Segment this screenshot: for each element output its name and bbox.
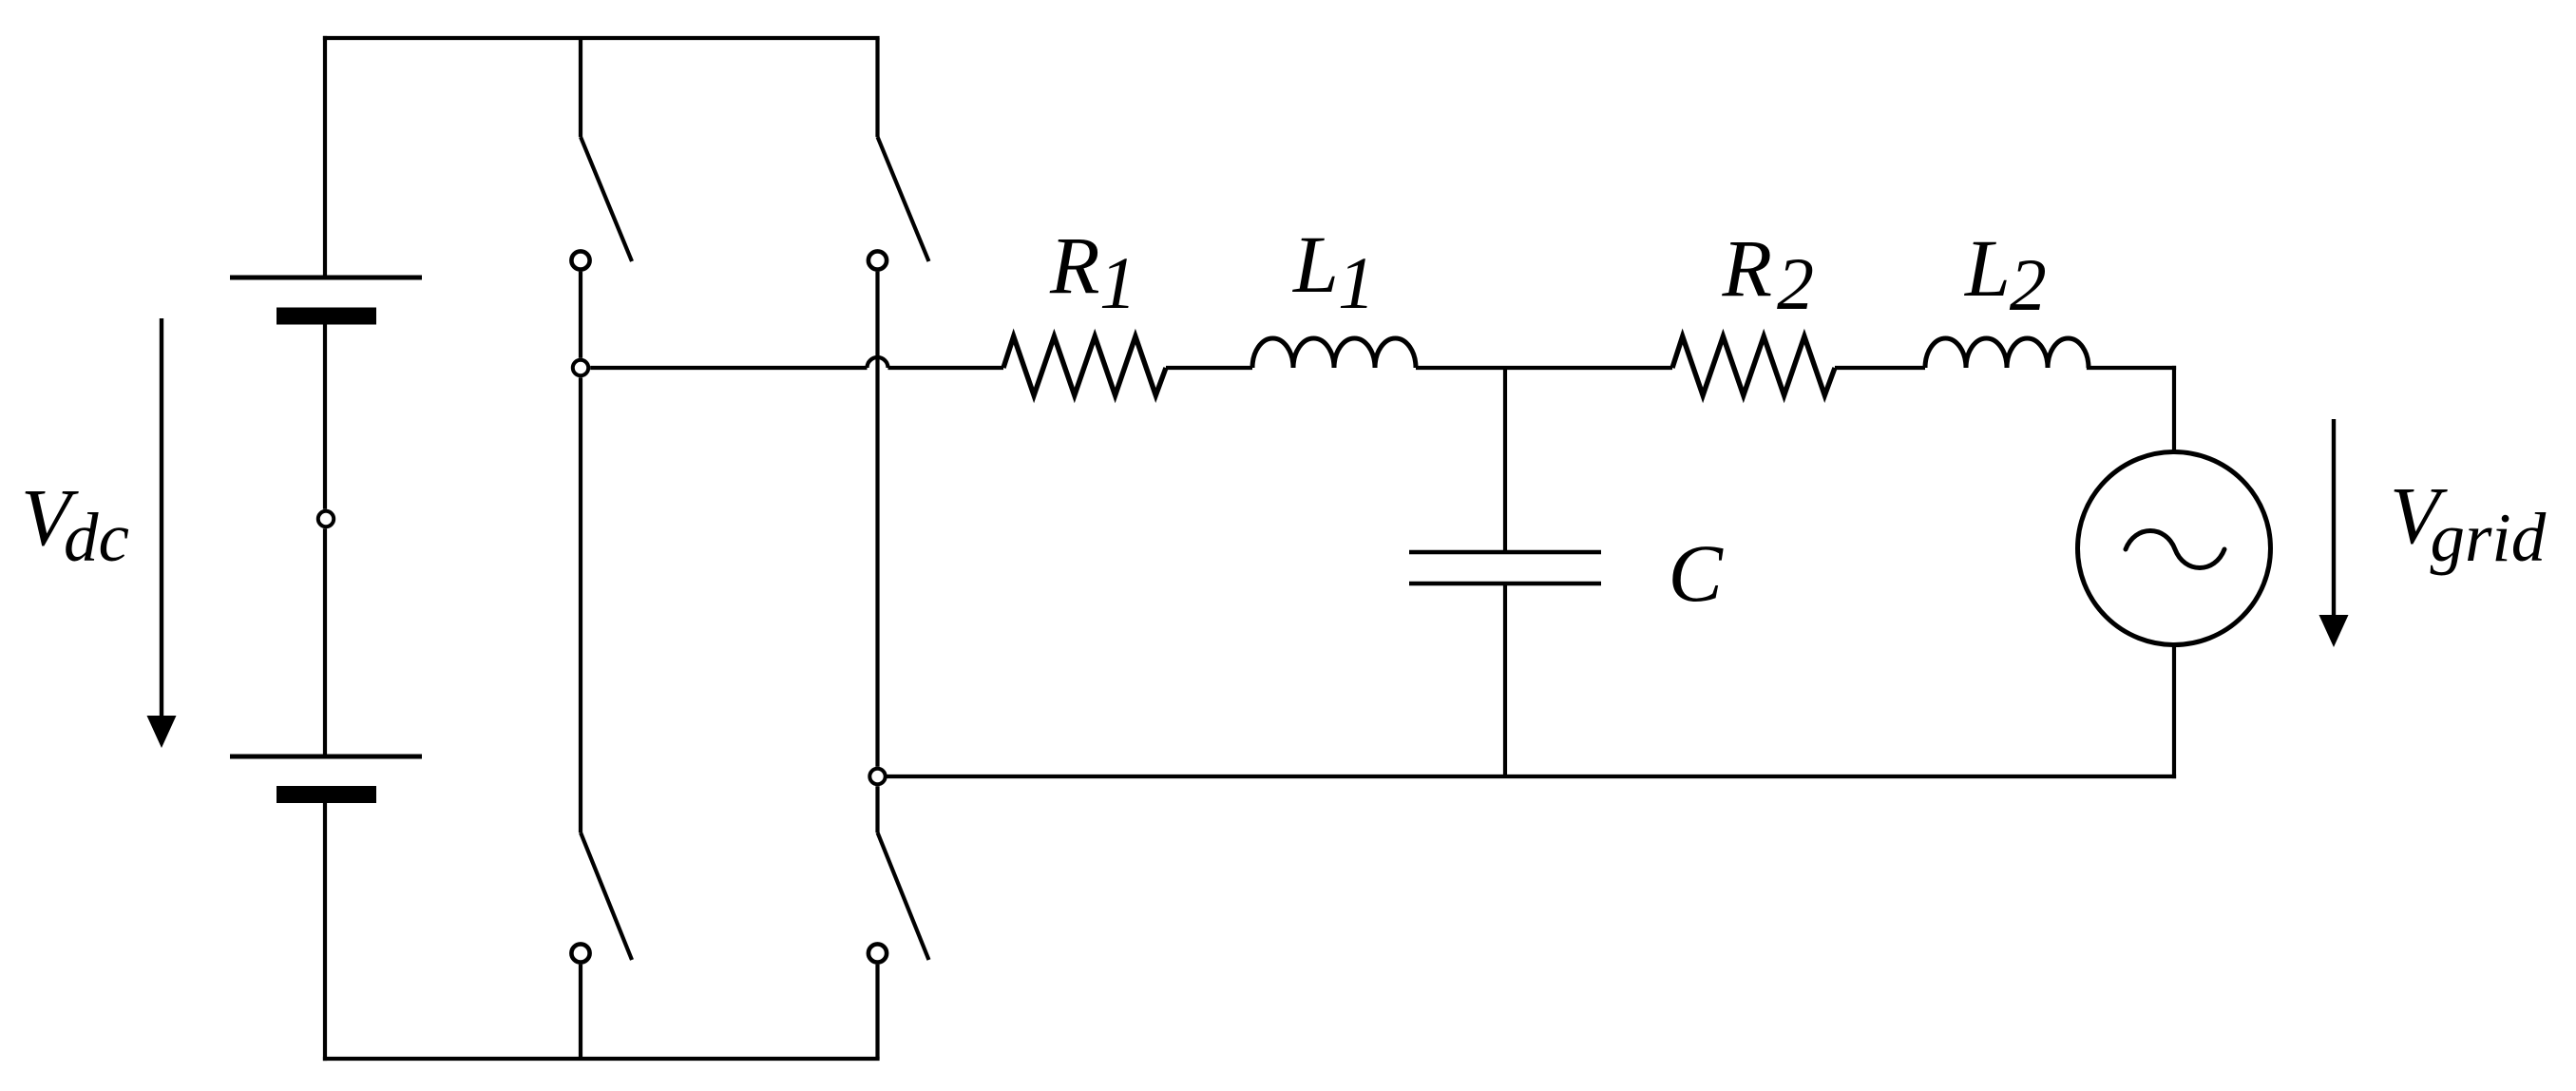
resistor R1	[1003, 336, 1166, 395]
node B (leg2 output)	[869, 769, 885, 784]
svg-text:R: R	[1049, 220, 1100, 311]
svg-text:L: L	[1291, 219, 1339, 310]
wire bottom rail (node B to AC source)	[887, 775, 2174, 778]
wire S2 contact to node B	[875, 272, 879, 767]
svg-text:1: 1	[1338, 241, 1375, 324]
switch S2 top stub	[875, 38, 879, 137]
wire top DC bus	[325, 36, 878, 40]
switch S3 bottom stub	[579, 965, 582, 1059]
label R1	[1049, 220, 1136, 324]
capacitor C bottom plate	[1409, 582, 1601, 586]
svg-text:C: C	[1669, 527, 1725, 619]
label L2	[1963, 222, 2047, 326]
wire R1 to L1	[1166, 366, 1252, 370]
wire node C down to capacitor	[1503, 368, 1507, 550]
svg-text:1: 1	[1099, 241, 1136, 324]
inductor L2	[1925, 338, 2089, 368]
node DC midpoint	[318, 511, 334, 526]
wire node A to hop	[590, 366, 867, 370]
svg-text:R: R	[1722, 222, 1773, 314]
wire L2 to grid corner	[2089, 366, 2174, 370]
battery B1 plate + (long)	[230, 276, 422, 280]
battery B2 plate + (long)	[230, 755, 422, 759]
svg-text:2: 2	[1777, 242, 1814, 325]
switch S4 bottom stub	[875, 965, 879, 1059]
label Vdc	[21, 471, 129, 576]
switch S4 blade	[878, 833, 929, 960]
switch S3 blade	[581, 833, 632, 960]
wire L1 to R2 (through node C)	[1416, 366, 1672, 370]
arrow Vgrid (down)	[2319, 419, 2349, 647]
svg-text:dc: dc	[64, 499, 129, 576]
AC source sine wave	[2126, 531, 2224, 568]
label R2	[1722, 222, 1815, 325]
svg-text:grid: grid	[2431, 499, 2547, 576]
battery B2 plate - (short thick)	[277, 786, 376, 803]
label Vgrid	[2390, 469, 2547, 576]
svg-text:2: 2	[2010, 243, 2047, 326]
switch S2 blade	[878, 137, 929, 261]
wire R2 to L2	[1835, 366, 1925, 370]
resistor R2	[1672, 336, 1835, 395]
wire node A to S3	[579, 377, 582, 833]
wire capacitor to bottom rail	[1503, 585, 1507, 776]
inductor L1	[1252, 338, 1416, 368]
wire midpoint node to B2	[323, 528, 327, 755]
switch S4 contact	[868, 944, 887, 962]
battery B1 plate - (short thick)	[277, 308, 376, 325]
arrow Vdc (down)	[147, 318, 177, 748]
wire corner down to AC source	[2172, 368, 2176, 452]
wire AC source to bottom rail	[2172, 645, 2176, 777]
switch S1 top stub	[579, 38, 582, 137]
wire hop over leg2	[868, 357, 888, 368]
wire node B to S4	[875, 786, 879, 833]
label L1	[1291, 219, 1375, 324]
switch S1 contact	[571, 251, 589, 269]
wire hop to R1	[888, 366, 1004, 370]
node A (leg1 output)	[573, 360, 588, 375]
wire bottom DC bus	[325, 1057, 878, 1061]
wire B1 to midpoint node	[323, 325, 327, 509]
wire left DC downer	[323, 803, 327, 1059]
svg-text:L: L	[1963, 222, 2011, 314]
AC source Vgrid circle	[2078, 452, 2271, 645]
switch S3 contact	[571, 944, 589, 962]
wire S1 contact to node A	[579, 272, 582, 358]
switch S2 contact	[868, 251, 887, 269]
switch S1 blade	[581, 137, 632, 261]
wire left DC riser	[323, 38, 327, 276]
capacitor C top plate	[1409, 550, 1601, 555]
